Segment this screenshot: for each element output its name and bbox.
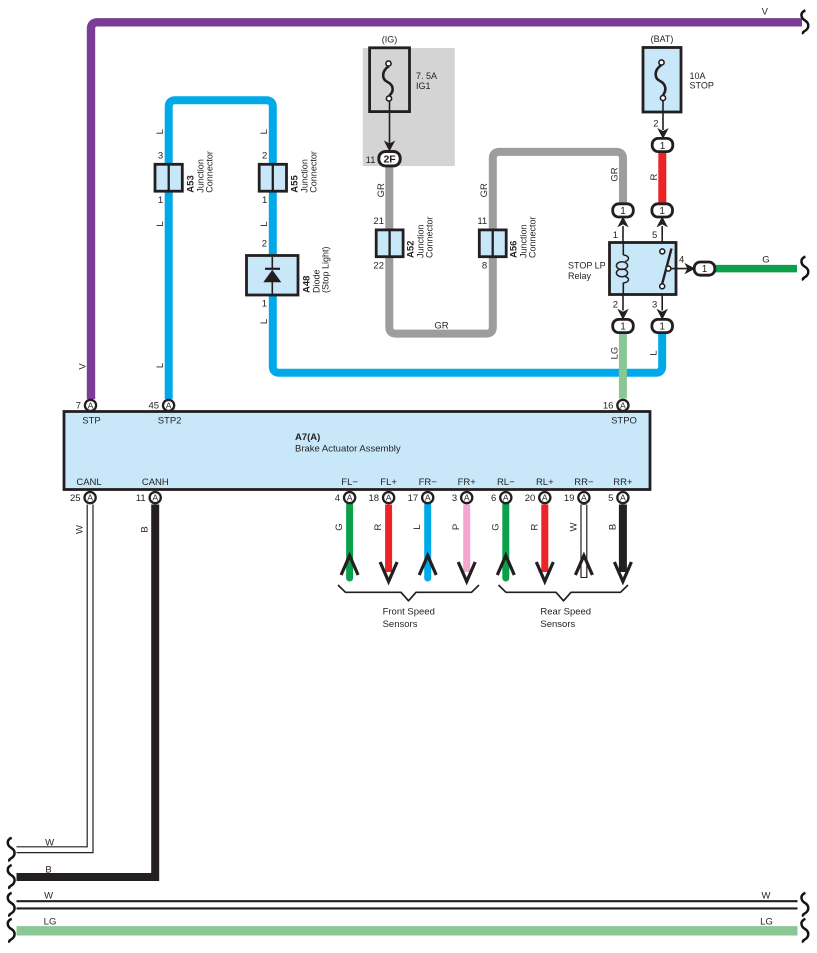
break symbol W bottom left xyxy=(8,893,15,917)
junction connector A53 xyxy=(155,150,215,206)
junction connector A55 xyxy=(259,150,318,206)
svg-text:G: G xyxy=(490,523,501,530)
wire G (green) xyxy=(714,265,798,273)
pin 17 FR- connector circle xyxy=(408,492,434,504)
connector oval 1 below relay pin 3 xyxy=(652,319,673,332)
svg-text:45: 45 xyxy=(149,401,160,412)
wire W bottom full width xyxy=(17,900,798,909)
svg-text:Connector: Connector xyxy=(528,216,538,258)
svg-text:GR: GR xyxy=(376,183,387,197)
sensor wire FL- (green) xyxy=(346,505,353,579)
svg-text:10A: 10A xyxy=(690,71,706,81)
svg-text:Connector: Connector xyxy=(309,151,319,193)
svg-text:A: A xyxy=(88,400,94,410)
break symbol CANH B left xyxy=(8,865,15,889)
svg-text:1: 1 xyxy=(620,206,626,217)
svg-text:Connector: Connector xyxy=(425,216,435,258)
svg-text:W: W xyxy=(568,522,579,531)
svg-text:L: L xyxy=(259,221,270,226)
sensor wire FR+ (pink) xyxy=(463,505,470,573)
pin 19 RR- connector circle xyxy=(564,492,590,504)
IG circuit shaded panel xyxy=(363,48,455,166)
arrow chevron down RR+ xyxy=(614,562,631,582)
svg-text:16: 16 xyxy=(603,401,614,412)
svg-text:(Stop Light): (Stop Light) xyxy=(321,246,331,293)
svg-text:CANH: CANH xyxy=(142,477,169,488)
wire LG (light green) STPO xyxy=(619,333,627,399)
svg-text:GR: GR xyxy=(434,320,448,331)
junction connector A56 xyxy=(477,216,537,272)
svg-text:6: 6 xyxy=(491,493,496,504)
svg-text:A: A xyxy=(152,493,158,503)
pin 6 RL- connector circle xyxy=(491,492,511,504)
junction connector A52 xyxy=(373,216,434,272)
svg-text:RR−: RR− xyxy=(574,477,594,488)
svg-text:GR: GR xyxy=(609,167,620,181)
arrow chevron down FR+ xyxy=(458,562,475,582)
svg-text:A: A xyxy=(581,493,587,503)
svg-text:V: V xyxy=(77,363,88,370)
svg-text:4: 4 xyxy=(335,493,340,504)
svg-text:A: A xyxy=(166,400,172,410)
wire LG bottom full width xyxy=(17,926,798,935)
svg-text:FR−: FR− xyxy=(419,477,438,488)
svg-text:W: W xyxy=(44,891,53,902)
break symbol green wire right xyxy=(801,257,808,281)
pin 7 STP connector circle xyxy=(76,400,96,412)
wire L (blue) A53/A55 network xyxy=(169,100,663,399)
svg-text:RL+: RL+ xyxy=(536,477,554,488)
svg-text:A: A xyxy=(347,493,353,503)
relay pin 5 lead xyxy=(661,226,663,242)
sensor wire RL- (green) xyxy=(502,505,509,579)
svg-text:FR+: FR+ xyxy=(458,477,477,488)
break symbol W bottom right xyxy=(801,893,808,917)
wire B CANH xyxy=(17,505,156,878)
svg-text:STOP LP: STOP LP xyxy=(568,261,606,271)
svg-text:A: A xyxy=(620,493,626,503)
svg-text:B: B xyxy=(45,865,51,876)
svg-text:8: 8 xyxy=(482,261,487,272)
svg-text:1: 1 xyxy=(702,264,708,275)
svg-text:2: 2 xyxy=(262,150,267,161)
svg-text:11: 11 xyxy=(477,216,487,227)
pin 20 RL+ connector circle xyxy=(525,492,551,504)
svg-text:1: 1 xyxy=(659,206,665,217)
arrow chevron up RR- xyxy=(575,556,592,576)
arrow chevron up RL- xyxy=(497,556,514,576)
svg-text:A: A xyxy=(503,493,509,503)
svg-text:P: P xyxy=(451,524,462,530)
sensor wire RR+ (black) xyxy=(619,505,627,573)
svg-text:L: L xyxy=(155,221,166,226)
brace Rear Speed Sensors xyxy=(499,585,629,601)
ECU A7(A) Brake Actuator Assembly xyxy=(64,412,650,490)
svg-text:L: L xyxy=(259,129,270,134)
svg-text:2: 2 xyxy=(653,118,658,129)
svg-text:Brake Actuator Assembly: Brake Actuator Assembly xyxy=(295,444,401,455)
relay STOP LP xyxy=(568,243,676,295)
svg-text:G: G xyxy=(334,523,345,530)
break symbol LG bottom left xyxy=(8,919,15,943)
svg-text:Sensors: Sensors xyxy=(540,619,575,630)
svg-text:20: 20 xyxy=(525,493,536,504)
svg-text:A: A xyxy=(542,493,548,503)
svg-text:RR+: RR+ xyxy=(613,477,633,488)
svg-text:5: 5 xyxy=(608,493,613,504)
svg-text:STPO: STPO xyxy=(611,415,637,426)
svg-text:Relay: Relay xyxy=(568,271,592,281)
wire GR (gray) xyxy=(389,152,623,334)
svg-text:A: A xyxy=(386,493,392,503)
svg-text:LG: LG xyxy=(44,917,57,928)
svg-text:25: 25 xyxy=(70,493,81,504)
svg-text:4: 4 xyxy=(679,255,684,266)
connector oval 1 below BAT fuse xyxy=(652,138,673,151)
svg-text:W: W xyxy=(45,838,54,849)
svg-text:1: 1 xyxy=(660,141,666,152)
svg-text:18: 18 xyxy=(369,493,380,504)
svg-text:3: 3 xyxy=(452,493,457,504)
svg-text:STP: STP xyxy=(82,415,100,426)
sensor wire FR- (blue) xyxy=(424,505,431,579)
relay pin 2 lead xyxy=(622,295,624,311)
svg-text:STP2: STP2 xyxy=(158,415,182,426)
svg-text:R: R xyxy=(373,523,384,530)
connector 2F oval xyxy=(366,152,401,166)
svg-text:Connector: Connector xyxy=(205,151,215,193)
svg-text:L: L xyxy=(649,350,660,355)
svg-text:A: A xyxy=(425,493,431,503)
svg-text:22: 22 xyxy=(373,261,384,272)
svg-text:2: 2 xyxy=(262,239,267,250)
svg-text:Front Speed: Front Speed xyxy=(383,606,435,617)
connector oval 1 right of relay pin 4 xyxy=(694,262,715,275)
svg-text:W: W xyxy=(762,891,771,902)
svg-text:A7(A): A7(A) xyxy=(295,432,320,443)
svg-text:L: L xyxy=(155,129,166,134)
svg-text:11: 11 xyxy=(136,493,146,504)
svg-text:STOP: STOP xyxy=(690,80,714,90)
svg-text:RL−: RL− xyxy=(497,477,515,488)
svg-text:GR: GR xyxy=(479,183,490,197)
svg-text:B: B xyxy=(607,524,618,530)
sensor wire RL+ (red) xyxy=(541,505,548,573)
relay pin 4 lead xyxy=(671,268,689,270)
svg-text:Rear Speed: Rear Speed xyxy=(540,606,591,617)
svg-text:19: 19 xyxy=(564,493,575,504)
brace Front Speed Sensors xyxy=(338,585,479,601)
wire W CANL xyxy=(17,505,91,850)
connector oval 1 above relay pin 5 xyxy=(652,204,673,217)
sensor wire RR- (white) xyxy=(580,505,587,579)
arrow chevron down FL+ xyxy=(380,562,397,582)
pin 25 CANL connector circle xyxy=(70,492,96,504)
connector oval 1 above relay pin 1 xyxy=(613,204,634,217)
svg-text:1: 1 xyxy=(620,322,626,333)
sensor wire FL+ (red) xyxy=(385,505,392,573)
svg-text:A: A xyxy=(464,493,470,503)
svg-text:V: V xyxy=(762,7,769,18)
relay pin 1 lead xyxy=(622,226,624,242)
svg-text:1: 1 xyxy=(158,195,163,206)
svg-text:LG: LG xyxy=(609,347,620,360)
svg-text:11: 11 xyxy=(366,155,376,166)
svg-text:17: 17 xyxy=(408,493,419,504)
pin 16 STPO connector circle xyxy=(603,400,629,412)
svg-text:FL+: FL+ xyxy=(380,477,397,488)
svg-text:7: 7 xyxy=(76,401,81,412)
svg-text:B: B xyxy=(140,526,151,532)
pin 5 RR+ connector circle xyxy=(608,492,628,504)
break symbol LG bottom right xyxy=(801,919,808,943)
svg-text:7. 5A: 7. 5A xyxy=(416,71,437,81)
arrow chevron up FL- xyxy=(341,556,358,576)
svg-text:R: R xyxy=(649,173,660,180)
pin 3 FR+ connector circle xyxy=(452,492,472,504)
svg-text:1: 1 xyxy=(262,299,267,310)
svg-text:L: L xyxy=(259,319,270,324)
svg-text:CANL: CANL xyxy=(76,477,101,488)
svg-text:3: 3 xyxy=(158,150,163,161)
diode A48 (Stop Light) xyxy=(247,239,331,310)
svg-text:1: 1 xyxy=(262,195,267,206)
svg-text:IG1: IG1 xyxy=(416,81,431,91)
svg-text:2F: 2F xyxy=(383,154,396,166)
svg-text:21: 21 xyxy=(373,216,384,227)
arrow chevron up FR- xyxy=(419,556,436,576)
pin 18 FL+ connector circle xyxy=(369,492,395,504)
break symbol CANL W left xyxy=(8,838,15,862)
relay pin 3 lead xyxy=(661,295,663,311)
svg-text:1: 1 xyxy=(659,322,665,333)
svg-text:1: 1 xyxy=(613,230,618,241)
break symbol purple wire right xyxy=(801,10,808,34)
svg-text:FL−: FL− xyxy=(341,477,358,488)
svg-text:W: W xyxy=(75,525,86,534)
svg-text:(IG): (IG) xyxy=(382,35,398,45)
wire R (red) xyxy=(658,152,666,204)
pin 11 CANH connector circle xyxy=(136,492,161,504)
svg-text:R: R xyxy=(529,523,540,530)
svg-text:3: 3 xyxy=(652,300,657,311)
connector oval 1 below relay pin 2 xyxy=(613,319,634,332)
svg-text:2: 2 xyxy=(613,300,618,311)
svg-text:Sensors: Sensors xyxy=(383,619,418,630)
svg-text:L: L xyxy=(412,524,423,529)
svg-text:A: A xyxy=(87,493,93,503)
svg-text:(BAT): (BAT) xyxy=(651,34,674,44)
svg-text:A: A xyxy=(620,400,626,410)
fuse IG1 7.5A xyxy=(370,35,437,152)
pin 45 STP2 connector circle xyxy=(149,400,175,412)
svg-text:L: L xyxy=(155,363,166,368)
arrow chevron down RL+ xyxy=(536,562,553,582)
svg-text:5: 5 xyxy=(652,230,657,241)
svg-text:LG: LG xyxy=(760,917,773,928)
wire V (purple) STP xyxy=(91,22,802,399)
svg-text:G: G xyxy=(762,255,769,266)
pin 4 FL- connector circle xyxy=(335,492,355,504)
fuse STOP 10A (BAT) xyxy=(643,34,714,139)
